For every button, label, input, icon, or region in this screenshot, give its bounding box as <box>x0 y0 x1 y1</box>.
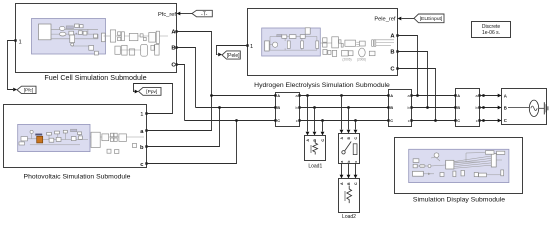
goto tag [Ppv] <box>139 87 162 95</box>
svg-text:a: a <box>340 161 344 163</box>
three-phase block B3 <box>454 89 480 127</box>
svg-text:Load2: Load2 <box>342 214 356 220</box>
subsystem U1 Fuel Cell Simulation Submodule <box>14 4 177 73</box>
wire ELEinput to Pele_ref input <box>398 17 415 21</box>
svg-text:A: A <box>277 93 280 98</box>
svg-text:Photovoltaic Simulation Submod: Photovoltaic Simulation Submodule <box>24 174 131 181</box>
label Simulation Display Submodule <box>413 196 505 203</box>
junction dots breaker taps <box>340 94 357 122</box>
svg-text:c: c <box>408 118 410 123</box>
wire HE A down to bus phase a <box>398 36 418 96</box>
svg-text:b: b <box>296 105 298 110</box>
load block Load2 <box>339 179 360 213</box>
svg-text:c: c <box>476 118 478 123</box>
svg-text:C: C <box>277 118 280 123</box>
svg-text:1: 1 <box>250 44 253 50</box>
label Hydrogen Electrolysis Simulation Submodule <box>254 82 390 89</box>
svg-text:b: b <box>140 145 144 151</box>
svg-text:b: b <box>408 105 410 110</box>
goto tag [Pele] <box>222 51 240 59</box>
three-phase block B2 <box>387 90 412 127</box>
subsystem U3 Photovoltaic Simulation Submodule <box>4 105 148 168</box>
wire HE B down to bus phase b <box>398 52 428 108</box>
svg-text:A: A <box>306 139 310 142</box>
svg-text:A: A <box>504 94 507 99</box>
goto tag [Pfc] <box>17 86 36 94</box>
svg-text:A: A <box>390 93 393 98</box>
label Photovoltaic Simulation Submodule <box>24 174 131 181</box>
bus phase b segment B2 to B3 <box>412 107 456 109</box>
svg-text:A: A <box>340 182 344 185</box>
junction dots PV taps <box>210 94 238 122</box>
bus phase c segment to block B1 <box>185 120 276 122</box>
svg-text:-T-: -T- <box>201 11 208 17</box>
wire HE port1 to goto [Pele] <box>217 46 248 57</box>
label Fuel Cell Simulation Submodule <box>44 73 146 82</box>
bus phase a segment B2 to B3 <box>412 95 456 97</box>
subsystem U2 Hydrogen Electrolysis Simulation Submodule <box>246 9 398 76</box>
from tag [ELEinput] feeding Pele_ref <box>414 14 444 23</box>
bus phase a segment B1 to B2 <box>300 95 389 97</box>
wire HE C down to bus phase c <box>398 69 436 121</box>
svg-text:C: C <box>321 139 325 142</box>
bus phase b segment B1 to B2 <box>300 107 389 109</box>
svg-text:Fuel Cell Simulation Submodule: Fuel Cell Simulation Submodule <box>44 73 146 82</box>
wire drops to Load1 <box>306 96 325 136</box>
svg-text:B: B <box>277 105 280 110</box>
svg-text:Simulation Display Submodule: Simulation Display Submodule <box>413 196 505 203</box>
svg-text:Discrete: Discrete <box>482 24 501 30</box>
junction dots Load1 taps <box>306 94 324 122</box>
wire FC B down to bus phase b <box>177 48 196 108</box>
wires breaker to Load2 <box>340 164 358 179</box>
label Load1 <box>308 164 322 170</box>
wire PV port1 to goto [Ppv] <box>134 84 173 114</box>
svg-text:c: c <box>354 161 358 163</box>
wire PV c up to bus phase c <box>147 121 237 164</box>
svg-text:1: 1 <box>19 39 22 45</box>
bus phase c segment B2 to B3 <box>412 120 456 122</box>
three-phase source V1 (grid) <box>502 89 548 125</box>
powergui block Discrete 1e-06 s <box>472 22 511 38</box>
svg-text:b: b <box>476 105 478 110</box>
from tag -T- feeding Pfc_ref <box>192 10 212 17</box>
svg-text:C: C <box>457 118 460 123</box>
svg-text:Hydrogen Electrolysis Simulati: Hydrogen Electrolysis Simulation Submodu… <box>254 82 390 89</box>
svg-text:[Pele]: [Pele] <box>227 53 240 59</box>
svg-text:(2006): (2006) <box>357 57 366 61</box>
bus phase a segment to block B1 <box>212 95 276 97</box>
svg-text:Pele_ref: Pele_ref <box>374 17 396 23</box>
bus phase b segment to block B1 <box>196 107 276 109</box>
load block Load1 <box>305 136 326 161</box>
wire FC A to bus phase a (shared vertical with PV a) <box>147 32 212 131</box>
svg-text:A: A <box>457 93 460 98</box>
subsystem U4 Simulation Display Submodule <box>395 138 523 194</box>
svg-text:Pfc_ref: Pfc_ref <box>158 12 176 18</box>
wire FC port1 to goto [Pfc] <box>8 41 18 92</box>
svg-text:(2006): (2006) <box>342 57 351 61</box>
three-phase block B1 <box>274 93 300 127</box>
svg-text:[Ppv]: [Ppv] <box>146 89 157 95</box>
svg-text:C: C <box>390 118 393 123</box>
svg-text:[Pfc]: [Pfc] <box>24 88 34 94</box>
svg-text:Load1: Load1 <box>308 164 322 170</box>
wires B3 to grid source <box>480 94 502 123</box>
wire PV b up to bus phase b <box>147 108 220 147</box>
svg-text:c: c <box>296 118 298 123</box>
wire drops to breaker <box>340 96 358 134</box>
svg-text:[ELEinput]: [ELEinput] <box>420 16 443 22</box>
wire -T- to Pfc_ref input <box>177 12 193 16</box>
svg-text:C: C <box>354 182 358 185</box>
junction dots HE taps <box>416 94 437 122</box>
wire FC C down to bus phase c <box>177 65 185 121</box>
bus phase c segment B1 to B2 <box>300 120 389 122</box>
svg-text:b: b <box>347 161 351 163</box>
svg-text:1: 1 <box>140 112 143 118</box>
svg-text:B: B <box>504 105 507 110</box>
svg-text:C: C <box>504 118 507 123</box>
svg-text:1e-06 s.: 1e-06 s. <box>482 30 500 36</box>
svg-text:B: B <box>457 105 460 110</box>
three-phase breaker CB1 <box>339 134 360 164</box>
svg-text:B: B <box>390 50 394 56</box>
svg-text:B: B <box>390 105 393 110</box>
svg-text:B: B <box>171 46 175 52</box>
svg-text:B: B <box>347 182 351 185</box>
label Load2 <box>342 214 356 220</box>
